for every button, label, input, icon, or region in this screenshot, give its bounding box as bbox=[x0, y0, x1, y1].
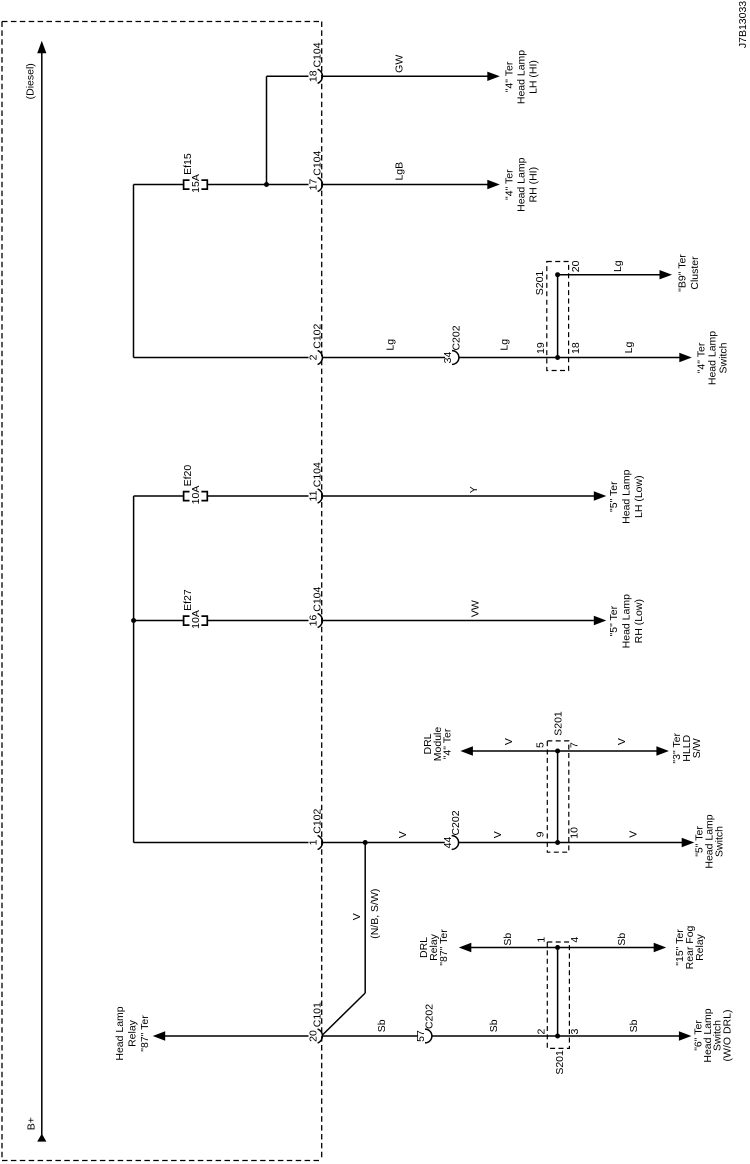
arrow to Head Lamp LH (HI) bbox=[487, 72, 500, 81]
svg-text:V: V bbox=[351, 913, 363, 920]
svg-text:9: 9 bbox=[535, 831, 547, 837]
svg-text:(N/B, S/W): (N/B, S/W) bbox=[369, 889, 381, 939]
svg-text:11: 11 bbox=[308, 490, 320, 501]
svg-text:Sb: Sb bbox=[376, 1019, 388, 1032]
svg-text:Switch: Switch bbox=[714, 826, 726, 857]
arrow to Cluster bbox=[660, 270, 673, 279]
svg-text:C101: C101 bbox=[312, 1002, 324, 1027]
svg-text:2: 2 bbox=[535, 1029, 547, 1035]
svg-text:Lg: Lg bbox=[385, 339, 397, 351]
svg-text:1: 1 bbox=[535, 937, 547, 943]
svg-text:Relay: Relay bbox=[127, 1019, 139, 1047]
dashed boundary box (fuse / junction block, left border) bbox=[1, 22, 3, 1161]
bus wire feeding fuses Ef20/Ef27 (vertical row D to row F) bbox=[133, 496, 135, 843]
svg-text:C104: C104 bbox=[312, 42, 324, 67]
wire V row F outside to connector 44 C202 bbox=[322, 842, 445, 844]
dashed boundary box top border bbox=[2, 21, 322, 23]
splice junction node (branch) bbox=[555, 272, 560, 277]
svg-text:"5" Ter: "5" Ter bbox=[608, 605, 620, 636]
splice junction node (main) bbox=[555, 840, 560, 845]
wire Sb branch from splice right to Rear Fog Relay bbox=[558, 947, 655, 949]
svg-text:Sb: Sb bbox=[488, 1019, 500, 1032]
svg-text:Head Lamp: Head Lamp bbox=[516, 157, 528, 211]
svg-text:10A: 10A bbox=[190, 486, 202, 505]
svg-text:3: 3 bbox=[569, 1029, 581, 1035]
svg-text:20: 20 bbox=[308, 1030, 320, 1042]
svg-text:18: 18 bbox=[570, 342, 582, 354]
splice S201 (19/18/20) dashed box and splice bus bbox=[547, 262, 569, 371]
arrow to HLLD S/W bbox=[656, 746, 669, 755]
splice junction node (branch) bbox=[555, 945, 560, 950]
svg-text:"4" Ter: "4" Ter bbox=[442, 728, 454, 759]
svg-text:Sb: Sb bbox=[616, 933, 628, 946]
svg-text:16: 16 bbox=[308, 615, 320, 627]
junction node row F / N/B S/W branch bbox=[363, 840, 368, 845]
wire V (N/B, S/W) vertical branch bbox=[364, 843, 366, 994]
wire branch vertical row B junction up to row A bbox=[266, 76, 268, 184]
svg-text:S201: S201 bbox=[554, 1050, 566, 1075]
arrow to DRL Relay bbox=[459, 943, 472, 952]
fuse Ef15 15A bbox=[184, 180, 190, 189]
arrow from Head Lamp Relay "87" Ter bbox=[153, 1031, 166, 1040]
svg-text:LgB: LgB bbox=[394, 162, 406, 181]
splice junction node (branch) bbox=[555, 749, 560, 754]
svg-text:57: 57 bbox=[415, 1030, 427, 1042]
svg-text:C202: C202 bbox=[450, 810, 462, 835]
connector 18 C104 bbox=[318, 69, 323, 83]
arrow to Head Lamp Switch "5" Ter bbox=[682, 838, 695, 847]
svg-text:Switch: Switch bbox=[718, 342, 730, 373]
svg-text:C102: C102 bbox=[312, 808, 324, 833]
svg-text:LH (Low): LH (Low) bbox=[633, 475, 645, 518]
connector 17 C104 bbox=[318, 177, 323, 191]
svg-text:Cluster: Cluster bbox=[689, 256, 701, 290]
svg-text:V: V bbox=[616, 738, 628, 745]
svg-text:Relay: Relay bbox=[694, 933, 706, 961]
svg-text:17: 17 bbox=[308, 179, 320, 191]
svg-text:10A: 10A bbox=[190, 610, 202, 629]
svg-text:"5" Ter: "5" Ter bbox=[608, 481, 620, 512]
connector 1 C102 bbox=[318, 835, 323, 849]
fuse Ef27 10A bbox=[184, 616, 190, 625]
connector 2 C102 bbox=[318, 350, 323, 364]
splice S201 (9/10/5/7) dashed box and splice bus bbox=[547, 741, 569, 852]
svg-text:J7B13033: J7B13033 bbox=[737, 1, 749, 48]
svg-text:Ef15: Ef15 bbox=[182, 153, 194, 175]
connector 16 C104 bbox=[318, 613, 323, 627]
svg-text:34: 34 bbox=[442, 352, 454, 364]
wire row E fuse to connector 16 C104 bbox=[207, 620, 308, 622]
svg-text:S201: S201 bbox=[553, 711, 565, 736]
wire row D from bus to fuse Ef20 bbox=[134, 495, 184, 497]
svg-text:RH (Low): RH (Low) bbox=[633, 599, 645, 643]
svg-text:C202: C202 bbox=[450, 325, 462, 350]
svg-text:C104: C104 bbox=[312, 586, 324, 611]
B+ rail arrowhead (top) bbox=[37, 41, 46, 53]
svg-text:(W/O DRL): (W/O DRL) bbox=[722, 1010, 734, 1062]
svg-text:V: V bbox=[628, 831, 640, 838]
wire V branch from splice left to DRL Module bbox=[473, 750, 558, 752]
svg-text:Ef20: Ef20 bbox=[182, 465, 194, 487]
svg-text:V: V bbox=[503, 738, 515, 745]
svg-text:Head Lamp: Head Lamp bbox=[621, 469, 633, 523]
svg-text:V: V bbox=[492, 831, 504, 838]
connector 57 C202 bbox=[425, 1029, 432, 1043]
svg-text:19: 19 bbox=[535, 342, 547, 354]
svg-text:Lg: Lg bbox=[612, 260, 624, 272]
svg-text:"4" Ter: "4" Ter bbox=[504, 61, 516, 92]
wire row A to connector 18 C104 bbox=[267, 75, 309, 77]
connector 34 C202 bbox=[452, 351, 459, 365]
arrow to DRL Module bbox=[460, 746, 473, 755]
wire Lg row C to splice S201 bbox=[459, 357, 680, 359]
svg-text:7: 7 bbox=[568, 742, 580, 748]
svg-text:2: 2 bbox=[308, 354, 320, 360]
svg-text:Ef27: Ef27 bbox=[182, 589, 194, 611]
svg-text:20: 20 bbox=[570, 260, 582, 272]
svg-text:Lg: Lg bbox=[623, 342, 635, 354]
svg-text:10: 10 bbox=[569, 827, 581, 839]
connector 20 C101 bbox=[318, 1029, 323, 1043]
wire row B fuse to connector 17 C104 bbox=[207, 184, 308, 186]
svg-text:S201: S201 bbox=[534, 271, 546, 296]
arrow to Head Lamp RH (Low) bbox=[594, 616, 607, 625]
svg-text:Sb: Sb bbox=[502, 933, 514, 946]
wire Lg row C outside to connector 34 C202 bbox=[322, 357, 445, 359]
svg-text:44: 44 bbox=[442, 837, 454, 849]
wire row D fuse to connector 11 C104 bbox=[207, 495, 308, 497]
svg-text:18: 18 bbox=[308, 70, 320, 82]
wire row C from bus to connector 2 C102 bbox=[134, 357, 309, 359]
connector 44 C202 bbox=[452, 836, 459, 850]
connector 11 C104 bbox=[318, 489, 323, 503]
svg-text:C102: C102 bbox=[312, 323, 324, 348]
wire Sb row G outside to connector 57 C202 bbox=[322, 1035, 418, 1037]
wire row E from bus to fuse Ef27 bbox=[134, 620, 184, 622]
svg-text:Lg: Lg bbox=[499, 339, 511, 351]
svg-text:C202: C202 bbox=[423, 1004, 435, 1029]
svg-text:VW: VW bbox=[469, 600, 481, 617]
svg-text:B+: B+ bbox=[26, 1117, 38, 1130]
wire GW row A outside bbox=[322, 75, 489, 77]
junction node row E on fuse bus bbox=[131, 618, 136, 623]
arrow to Head Lamp Switch "6" Ter bbox=[679, 1031, 692, 1040]
wire Sb row G to splice S201 bbox=[432, 1035, 679, 1037]
dashed boundary box right border (connector face) bbox=[321, 22, 323, 1161]
splice junction node (main) bbox=[555, 1034, 560, 1039]
svg-text:S/W: S/W bbox=[691, 738, 703, 758]
svg-text:"87" Ter: "87" Ter bbox=[139, 1015, 151, 1052]
wire Sb branch from splice left to DRL Relay bbox=[471, 947, 558, 949]
wire V row F to splice S201 bbox=[459, 842, 682, 844]
bus wire feeding fuse Ef15 (vertical from row B to row C) bbox=[133, 185, 135, 358]
arrow to Head Lamp Switch "4" Ter bbox=[679, 353, 692, 362]
svg-text:Y: Y bbox=[468, 486, 480, 493]
svg-text:"87" Ter: "87" Ter bbox=[438, 929, 450, 966]
dashed boundary box bottom border bbox=[2, 1160, 322, 1162]
wire row B from bus to fuse Ef15 bbox=[134, 184, 184, 186]
svg-text:5: 5 bbox=[535, 742, 547, 748]
wire V branch from splice right to HLLD switch bbox=[558, 750, 657, 752]
wire from Head Lamp Relay arrow to connector 20 C101 bbox=[164, 1035, 309, 1037]
wire VW row E outside bbox=[322, 620, 595, 622]
svg-text:C104: C104 bbox=[312, 150, 324, 175]
wire V (N/B, S/W) diagonal to connector 20 C101 bbox=[323, 993, 365, 1035]
arrow to Head Lamp LH (Low) bbox=[594, 491, 607, 500]
svg-text:Sb: Sb bbox=[628, 1019, 640, 1032]
fuse Ef20 10A bbox=[184, 492, 190, 501]
svg-text:(Diesel): (Diesel) bbox=[24, 63, 36, 99]
wire LgB row B outside bbox=[322, 184, 489, 186]
svg-text:GW: GW bbox=[394, 55, 406, 73]
wire row F from bus to connector 1 C102 bbox=[134, 842, 309, 844]
splice S201 (2/3/1/4) dashed box and splice bus bbox=[547, 942, 569, 1048]
arrow to Rear Fog Relay bbox=[654, 943, 667, 952]
svg-text:Head Lamp: Head Lamp bbox=[114, 1006, 126, 1060]
B+ rail arrowhead (bottom) bbox=[37, 1134, 46, 1142]
svg-text:V: V bbox=[397, 831, 409, 838]
B+ supply rail wire bbox=[41, 47, 43, 1135]
arrow to Head Lamp RH (HI) bbox=[487, 180, 500, 189]
svg-text:"4" Ter: "4" Ter bbox=[504, 169, 516, 200]
junction node row B / row A branch bbox=[264, 182, 269, 187]
svg-text:C104: C104 bbox=[312, 462, 324, 487]
svg-text:15A: 15A bbox=[190, 174, 202, 193]
svg-text:LH (HI): LH (HI) bbox=[528, 60, 540, 94]
svg-text:Head Lamp: Head Lamp bbox=[621, 594, 633, 648]
splice junction node (main) bbox=[555, 355, 560, 360]
wire Lg branch from splice to cluster bbox=[558, 274, 661, 276]
svg-text:RH (HI): RH (HI) bbox=[528, 167, 540, 203]
wire Y row D outside bbox=[322, 495, 595, 497]
svg-text:Head Lamp: Head Lamp bbox=[516, 50, 528, 104]
svg-text:4: 4 bbox=[569, 937, 581, 943]
svg-text:1: 1 bbox=[308, 839, 320, 845]
svg-text:"B9" Ter: "B9" Ter bbox=[677, 254, 689, 292]
